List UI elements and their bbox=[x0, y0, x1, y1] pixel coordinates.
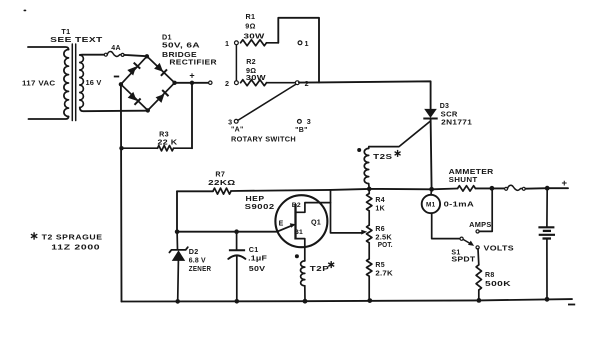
transformer T1 secondary lead top bbox=[80, 54, 105, 56]
svg-text:R2: R2 bbox=[246, 57, 256, 66]
node shunt/amps bbox=[490, 186, 495, 191]
svg-text:4A: 4A bbox=[111, 45, 121, 52]
node R5/bottom rail bbox=[367, 298, 372, 303]
resistor R5 bbox=[367, 259, 372, 276]
meter M1 circle bbox=[422, 195, 440, 213]
transformer T1 primary winding bbox=[64, 50, 69, 117]
emitter arrowhead bbox=[290, 223, 296, 228]
SCR D3 bbox=[424, 109, 437, 118]
svg-text:3: 3 bbox=[307, 117, 311, 126]
svg-text:"B": "B" bbox=[295, 127, 308, 134]
svg-text:9Ω: 9Ω bbox=[245, 22, 255, 31]
node D2/E-rail bbox=[175, 229, 180, 234]
terminal B2 bbox=[295, 81, 299, 85]
fuse (output) symbol bbox=[505, 187, 508, 190]
node D2 bottom bbox=[175, 299, 180, 304]
svg-text:ZENER: ZENER bbox=[189, 264, 212, 273]
svg-text:.1μF: .1μF bbox=[248, 254, 267, 263]
capacitor C1 top plate bbox=[229, 249, 245, 251]
svg-text:30W: 30W bbox=[246, 73, 266, 82]
wire left vertical (DC- rail) bbox=[120, 84, 123, 301]
resistor R8 bbox=[476, 265, 481, 290]
svg-text:22KΩ: 22KΩ bbox=[208, 178, 236, 187]
wire C1 top lead bbox=[236, 232, 238, 251]
svg-text:2: 2 bbox=[305, 79, 309, 88]
svg-text:6.8 V: 6.8 V bbox=[189, 255, 206, 264]
svg-text:R8: R8 bbox=[485, 272, 495, 279]
svg-text:+: + bbox=[562, 178, 568, 189]
wire B2 to SCR anode bbox=[299, 81, 431, 109]
Q1 B2 lead bbox=[296, 203, 331, 213]
svg-text:"A": "A" bbox=[231, 126, 244, 133]
wire A1-A2 bbox=[235, 43, 237, 83]
bridge D1 diode upper-right bbox=[154, 63, 163, 72]
label - (output) bbox=[568, 304, 575, 306]
wire E rail bbox=[177, 225, 294, 232]
bridge D1 diode upper-left bbox=[127, 67, 136, 76]
node C1 top bbox=[234, 229, 239, 234]
label - (bridge minus) bbox=[114, 76, 119, 78]
zener D2 triangle bbox=[172, 250, 185, 261]
bridge node AC1 (top) bbox=[145, 54, 149, 58]
wire SCR cathode down bbox=[431, 119, 432, 190]
svg-text:16 V: 16 V bbox=[86, 78, 102, 87]
svg-text:SCR: SCR bbox=[441, 111, 458, 118]
bridge node DC+ (right) bbox=[172, 81, 176, 85]
resistor R4 bbox=[368, 189, 370, 194]
svg-text:M1: M1 bbox=[426, 202, 436, 209]
wire meter bottom lead bbox=[432, 213, 460, 238]
svg-text:2.7K: 2.7K bbox=[375, 271, 393, 278]
node battery top bbox=[545, 186, 550, 191]
svg-text:2: 2 bbox=[225, 79, 229, 88]
wire main rail left bbox=[177, 190, 213, 192]
terminal A1 bbox=[235, 41, 239, 45]
svg-text:SEE TEXT: SEE TEXT bbox=[50, 35, 103, 44]
svg-text:2.5K: 2.5K bbox=[375, 234, 392, 241]
svg-text:T2 SPRAGUE: T2 SPRAGUE bbox=[42, 233, 103, 242]
node main/T2S/R4 bbox=[367, 187, 372, 192]
svg-text:S1: S1 bbox=[451, 249, 460, 256]
switch S1 common terminal bbox=[460, 237, 463, 240]
svg-text:+: + bbox=[189, 71, 194, 81]
node plus/R3 branch bbox=[190, 81, 194, 85]
wire meter top lead bbox=[430, 189, 433, 195]
svg-text:50V, 6A: 50V, 6A bbox=[162, 40, 200, 49]
terminal A2 bbox=[235, 81, 239, 85]
phasing dot T2S bbox=[357, 148, 361, 152]
battery B1 plates bbox=[538, 226, 554, 228]
node T2P bottom bbox=[303, 299, 308, 304]
wire battery top lead bbox=[546, 188, 548, 226]
svg-text:D3: D3 bbox=[440, 103, 450, 110]
rotary switch wiper A3-B2 bbox=[238, 84, 296, 120]
wire battery bottom lead bbox=[546, 239, 548, 300]
wire fuse to bridge AC1 bbox=[124, 55, 144, 56]
svg-text:1: 1 bbox=[304, 39, 308, 48]
wire VOLTS to R8 bbox=[477, 249, 480, 265]
node battery bottom bbox=[545, 297, 550, 302]
wire AMPS terminal up bbox=[479, 190, 492, 231]
terminal bridge output bbox=[209, 81, 212, 84]
stray mark bbox=[24, 10, 27, 12]
svg-text:11Z 2000: 11Z 2000 bbox=[51, 242, 100, 251]
Q1 base bar bbox=[294, 204, 296, 240]
svg-text:3: 3 bbox=[228, 118, 232, 127]
svg-text:R6: R6 bbox=[375, 226, 385, 233]
potentiometer R6 bbox=[367, 225, 372, 243]
terminal VOLTS bbox=[476, 246, 479, 249]
node main/SCR/meter bbox=[429, 187, 434, 192]
svg-text:500K: 500K bbox=[485, 281, 511, 288]
bridge node AC2 (bottom) bbox=[146, 108, 150, 112]
terminal A3 bbox=[234, 119, 238, 123]
winding T2P bbox=[301, 261, 305, 286]
wire R1 up and over bbox=[278, 18, 319, 83]
svg-text:T2P: T2P bbox=[310, 264, 330, 273]
svg-text:30W: 30W bbox=[244, 31, 265, 40]
svg-text:1K: 1K bbox=[375, 206, 385, 213]
wire shunt to fuse bbox=[475, 187, 504, 189]
svg-text:117 VAC: 117 VAC bbox=[22, 78, 56, 87]
wire B2 node to pot wiper bbox=[331, 190, 362, 233]
wire R8 to bottom rail bbox=[478, 290, 480, 300]
phasing dot T2P bbox=[295, 254, 299, 258]
svg-text:AMPS: AMPS bbox=[469, 220, 492, 229]
svg-text:T2S: T2S bbox=[373, 152, 393, 161]
pot wiper arrowhead bbox=[361, 230, 367, 235]
svg-text:E: E bbox=[279, 221, 284, 228]
bridge node DC- (left) bbox=[119, 82, 123, 86]
svg-text:0-1mA: 0-1mA bbox=[444, 199, 475, 208]
terminal AMPS bbox=[476, 230, 479, 233]
wire R7 left down bbox=[176, 191, 178, 231]
svg-text:R1: R1 bbox=[246, 12, 256, 21]
wire SCR gate bbox=[369, 121, 431, 147]
wire R3 right to plus bbox=[191, 83, 193, 148]
wire bottom rail bbox=[122, 299, 573, 301]
transformer T1 secondary lead bottom / wire to bridge AC2 bbox=[80, 108, 148, 112]
fuse 4A symbol bbox=[104, 53, 107, 56]
svg-text:1: 1 bbox=[225, 39, 229, 48]
svg-text:SPDT: SPDT bbox=[451, 257, 476, 264]
resistor R3 bbox=[122, 147, 158, 149]
svg-text:S9002: S9002 bbox=[245, 202, 275, 211]
svg-text:POT.: POT. bbox=[378, 242, 393, 249]
zener D2 cathode bar bbox=[169, 247, 187, 252]
wire R4-R6 bbox=[368, 211, 370, 225]
capacitor C1 bottom plate bbox=[228, 255, 245, 259]
wire bridge plus output bbox=[175, 82, 209, 84]
node R8 bottom bbox=[477, 298, 482, 303]
svg-text:B1: B1 bbox=[294, 229, 303, 236]
svg-text:22 K: 22 K bbox=[158, 138, 179, 147]
wire C1 bottom lead bbox=[236, 256, 238, 301]
svg-text:Q1: Q1 bbox=[311, 217, 321, 226]
resistor R1 bbox=[241, 40, 267, 46]
switch S1 arm bbox=[463, 239, 471, 244]
Q1 B1 lead bbox=[296, 239, 305, 261]
terminal B3 bbox=[298, 120, 302, 124]
wire R5 to bottom rail bbox=[368, 276, 370, 300]
terminal B1 bbox=[298, 41, 302, 45]
resistor ammeter shunt bbox=[458, 186, 476, 191]
svg-text:2N1771: 2N1771 bbox=[441, 120, 472, 127]
bridge D1 diode lower-left bbox=[128, 92, 137, 101]
winding T2S bbox=[368, 147, 370, 149]
svg-text:R5: R5 bbox=[375, 262, 385, 269]
bridge D1 diamond wires bbox=[121, 56, 175, 110]
wire D2 top lead bbox=[176, 232, 178, 250]
wire main rail mid bbox=[231, 189, 458, 192]
transistor Q1 circle bbox=[275, 195, 327, 247]
resistor R2 bbox=[241, 80, 267, 86]
node R3 left bbox=[119, 146, 123, 150]
svg-text:VOLTS: VOLTS bbox=[484, 243, 515, 252]
wire fuse to plus terminal bbox=[525, 187, 568, 190]
transformer T1 primary lead top bbox=[28, 47, 69, 50]
bridge D1 diode lower-right bbox=[156, 94, 165, 103]
svg-text:50V: 50V bbox=[249, 264, 266, 273]
transformer T1 core bbox=[72, 44, 75, 121]
node C1 bottom bbox=[235, 299, 240, 304]
resistor R7 bbox=[213, 188, 231, 194]
svg-text:SHUNT: SHUNT bbox=[449, 175, 478, 184]
wire D2 bottom lead bbox=[177, 261, 180, 302]
svg-text:B2: B2 bbox=[292, 202, 301, 209]
svg-text:R4: R4 bbox=[375, 197, 385, 204]
svg-text:RECTIFIER: RECTIFIER bbox=[169, 57, 217, 66]
transformer T1 secondary winding bbox=[80, 55, 84, 108]
note asterisk bbox=[33, 232, 35, 239]
wire R6-R5 bbox=[368, 243, 370, 259]
transformer T1 primary lead bottom bbox=[29, 117, 69, 120]
svg-text:ROTARY SWITCH: ROTARY SWITCH bbox=[231, 135, 296, 144]
